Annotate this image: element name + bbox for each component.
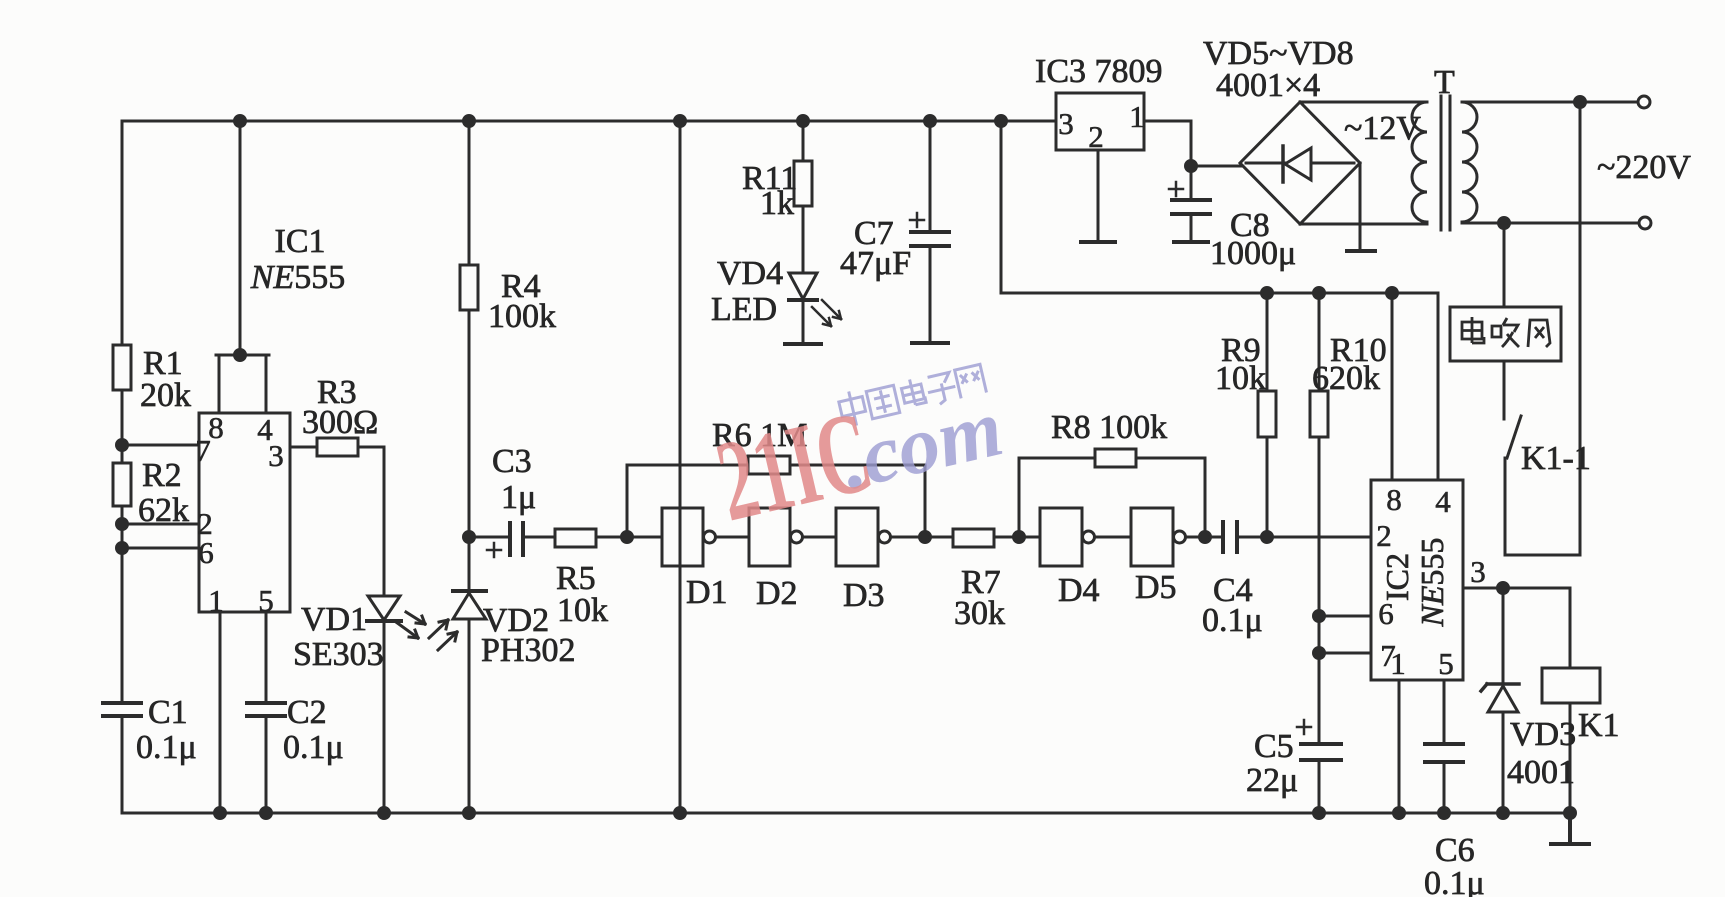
resistor R3 — [317, 438, 358, 456]
gate D2 — [749, 508, 803, 566]
wire IC1 pin5 down — [265, 612, 268, 813]
svg-text:R2: R2 — [142, 457, 182, 494]
node D1 branch bottom — [675, 808, 686, 819]
wire IC2 pin8 to rail — [1391, 293, 1394, 480]
wire IC2 pin5 down — [1443, 680, 1446, 744]
wire R6 feedback loop — [627, 465, 925, 537]
capacitor C2 — [244, 703, 288, 716]
svg-text:D1: D1 — [686, 574, 728, 611]
resistor R6 — [748, 456, 790, 474]
wire VD2 to ground rail — [468, 619, 471, 813]
svg-text:D4: D4 — [1058, 572, 1100, 609]
svg-text:0.1μ: 0.1μ — [1424, 865, 1485, 897]
hair dryer label 电吹风 glyphs — [1462, 317, 1550, 347]
node C5 ground — [1314, 808, 1325, 819]
node top rail at IC1 — [235, 116, 246, 127]
ground IC3 pin2 — [1081, 240, 1115, 244]
node C8 tap — [1186, 161, 1197, 172]
node pin6 tap — [117, 543, 128, 554]
wire IC2 pin4 to rail — [1437, 293, 1440, 480]
wire D5 to C4 — [1186, 536, 1223, 539]
svg-text:1000μ: 1000μ — [1210, 235, 1296, 272]
node R11 top — [798, 116, 809, 127]
svg-text:3: 3 — [1470, 554, 1486, 589]
diode VD3 4001 — [1481, 588, 1519, 712]
svg-text:300Ω: 300Ω — [302, 404, 378, 441]
wire IC2 pin3 output — [1463, 587, 1503, 590]
node IC1 bracket junction — [235, 350, 246, 361]
wire primary top to 220V terminal — [1462, 101, 1637, 104]
wire bridge right corner to ground — [1359, 163, 1362, 250]
node VD2 ground — [464, 808, 475, 819]
gate D3 — [836, 508, 891, 566]
resistor R2 — [113, 463, 131, 506]
wire D2 to D3 — [803, 536, 836, 539]
wire IC3 pin2 to ground — [1097, 150, 1100, 241]
svg-text:LED: LED — [711, 291, 777, 328]
svg-text:0.1μ: 0.1μ — [1202, 602, 1263, 639]
wire to hair dryer load — [1503, 223, 1506, 307]
svg-text:D3: D3 — [843, 577, 885, 614]
svg-text:7: 7 — [195, 433, 211, 468]
capacitor C7 — [908, 213, 952, 246]
transformer T primary winding — [1462, 102, 1477, 222]
svg-text:1: 1 — [208, 583, 224, 618]
wire C7 to ground — [929, 246, 932, 342]
svg-text:C5: C5 — [1254, 728, 1294, 765]
gate D5 — [1131, 508, 1186, 566]
svg-text:3: 3 — [268, 438, 284, 473]
node R6 return — [920, 532, 931, 543]
watermark 中国电子网 — [837, 361, 987, 428]
wire C5 to ground rail — [1318, 760, 1321, 813]
diode VD1 LED SE303 — [367, 596, 425, 638]
svg-text:~220V: ~220V — [1597, 149, 1691, 186]
svg-text:D5: D5 — [1135, 569, 1177, 606]
wire IC3 pin1 to bridge — [1144, 121, 1244, 166]
svg-text:6: 6 — [1378, 596, 1394, 631]
svg-text:NE555: NE555 — [250, 259, 345, 296]
resistor R1 — [113, 345, 131, 390]
wire C7 branch — [929, 121, 932, 231]
node pin6 tap — [1314, 611, 1325, 622]
node pin3 — [1498, 583, 1509, 594]
svg-text:2: 2 — [1376, 518, 1392, 553]
svg-text:PH302: PH302 — [481, 632, 575, 669]
wire R4 branch from top rail — [468, 121, 471, 537]
svg-text:4001: 4001 — [1507, 754, 1575, 791]
wire C6 to ground rail — [1443, 762, 1446, 813]
transformer T core — [1441, 96, 1450, 230]
wire pin6 — [122, 547, 199, 550]
svg-text:NE555: NE555 — [1414, 538, 1450, 628]
relay K1 coil — [1542, 668, 1600, 703]
gate D1 — [662, 508, 716, 566]
wire R11 branch — [802, 121, 805, 273]
node pin7 tap — [1314, 648, 1325, 659]
svg-text:620k: 620k — [1312, 360, 1380, 397]
capacitor C6 — [1422, 744, 1466, 762]
resistor R7 — [953, 529, 994, 547]
node C7 top — [925, 116, 936, 127]
wire R5 to D1 — [596, 536, 662, 539]
svg-text:4001×4: 4001×4 — [1216, 67, 1320, 104]
svg-text:6: 6 — [198, 535, 214, 570]
wire IC2 pin7 — [1319, 652, 1371, 655]
terminal 220V top — [1638, 96, 1650, 108]
svg-text:C1: C1 — [148, 694, 188, 731]
wire top supply rail — [122, 120, 1056, 123]
diode bridge VD5-VD8 — [1240, 102, 1360, 224]
svg-text:T: T — [1434, 64, 1455, 101]
wire C3 to R5 — [523, 536, 555, 539]
ground main rail — [1551, 813, 1589, 844]
ground VD4 — [785, 342, 821, 346]
node heater branch — [1499, 218, 1510, 229]
svg-text:20k: 20k — [140, 377, 191, 414]
svg-text:VD4: VD4 — [717, 255, 783, 292]
svg-text:IC3 7809: IC3 7809 — [1035, 53, 1163, 90]
svg-text:47μF: 47μF — [840, 245, 911, 282]
hair dryer load box — [1450, 307, 1561, 361]
ground C8 — [1174, 240, 1208, 244]
svg-text:1μ: 1μ — [501, 479, 536, 516]
wire vertical branch through D1 — [679, 121, 682, 813]
capacitor C8 — [1169, 166, 1213, 241]
wire D4 to D5 — [1095, 536, 1131, 539]
wire node to C3 — [469, 536, 510, 539]
node pin8 rail — [1387, 288, 1398, 299]
node R9 top — [1262, 288, 1273, 299]
svg-text:D2: D2 — [756, 575, 798, 612]
terminal 220V bottom — [1639, 217, 1651, 229]
node pin1 ground — [215, 808, 226, 819]
ground bridge — [1347, 249, 1375, 253]
wire relay to ground rail — [1569, 703, 1572, 813]
node D1 input — [622, 532, 633, 543]
svg-text:1: 1 — [1390, 646, 1406, 681]
wire D3 to R7 — [891, 536, 953, 539]
node pin1 ground — [1394, 808, 1405, 819]
node C6 ground — [1439, 808, 1450, 819]
resistor R11 — [794, 161, 812, 206]
node D1 branch top — [675, 116, 686, 127]
wire VD3 to ground rail — [1502, 712, 1505, 813]
wire K1-1 to 220V line — [1579, 102, 1582, 555]
wire IC1 pins 8-4 bracket to top rail — [216, 121, 269, 413]
wire IC1 pin1 to ground rail — [219, 612, 222, 813]
svg-text:C2: C2 — [287, 694, 327, 731]
node pin2 tap — [117, 519, 128, 530]
svg-text:1: 1 — [1129, 99, 1145, 134]
capacitor C5 — [1297, 720, 1342, 760]
capacitor C1 — [100, 703, 144, 716]
svg-text:SE303: SE303 — [293, 636, 384, 673]
wire pin3 to relay K1 — [1503, 588, 1570, 668]
svg-text:VD1: VD1 — [301, 601, 367, 638]
diode VD4 LED — [789, 273, 841, 326]
svg-text:C6: C6 — [1435, 832, 1475, 869]
wire pin2 — [122, 523, 199, 526]
gate D4 — [1040, 508, 1095, 566]
svg-text:22μ: 22μ — [1246, 762, 1298, 799]
ground C7 — [912, 341, 948, 345]
node R9 bottom — [1262, 532, 1273, 543]
svg-text:5: 5 — [258, 583, 274, 618]
svg-text:8: 8 — [1386, 482, 1402, 517]
svg-text:IC1: IC1 — [275, 223, 326, 260]
svg-text:10k: 10k — [1215, 360, 1266, 397]
capacitor C4 — [1223, 520, 1237, 556]
node pin7 tap — [117, 440, 128, 451]
svg-text:C3: C3 — [492, 443, 532, 480]
svg-text:4: 4 — [1435, 484, 1451, 519]
svg-text:30k: 30k — [954, 595, 1005, 632]
wire left vertical branch — [121, 121, 124, 813]
svg-text:IC2: IC2 — [1379, 553, 1415, 601]
op-amp U2 IC2 NE555 body — [1371, 480, 1463, 680]
wire C4 to IC2 pin2 — [1237, 536, 1371, 539]
wire primary bottom to 220V terminal — [1462, 222, 1638, 225]
svg-text:100k: 100k — [488, 298, 556, 335]
diode VD2 photodiode PH302 — [429, 537, 486, 650]
svg-text:0.1μ: 0.1μ — [283, 729, 344, 766]
wire VD4 to ground — [802, 300, 805, 343]
node R4 top — [464, 116, 475, 127]
op-amp U3 IC3 7809 body — [1056, 93, 1144, 150]
resistor R9 — [1258, 391, 1276, 437]
svg-text:2: 2 — [1088, 119, 1104, 154]
resistor R8 — [1095, 449, 1136, 467]
svg-text:5: 5 — [1438, 646, 1454, 681]
node VD1 ground — [379, 808, 390, 819]
wire second supply rail — [1001, 121, 1438, 293]
capacitor C3 — [487, 520, 523, 557]
wire VD1 to ground rail — [383, 622, 386, 813]
switch K1-1 — [1504, 361, 1580, 555]
node photodiode input — [464, 532, 475, 543]
svg-text:K1: K1 — [1578, 707, 1620, 744]
node R8 tap — [1014, 532, 1025, 543]
node R8 return — [1200, 532, 1211, 543]
svg-text:R8 100k: R8 100k — [1051, 409, 1167, 446]
node second rail top — [996, 116, 1007, 127]
node VD3 ground — [1498, 808, 1509, 819]
wire R8 feedback loop — [1019, 458, 1205, 537]
node R10 top — [1314, 288, 1325, 299]
wire D1 to D2 — [716, 536, 749, 539]
wire IC1 pin3 to R3 — [290, 446, 384, 449]
svg-text:~12V: ~12V — [1344, 110, 1421, 147]
wire bottom ground rail — [122, 812, 1570, 815]
resistor R4 — [460, 265, 478, 310]
svg-text:0.1μ: 0.1μ — [136, 729, 197, 766]
wire R7 to D4 — [994, 536, 1040, 539]
wire pin7 — [122, 444, 199, 447]
svg-text:62k: 62k — [138, 492, 189, 529]
wire R9 branch — [1266, 293, 1269, 537]
node relay ground — [1565, 808, 1576, 819]
resistor R5 — [555, 529, 596, 547]
node K1-1 branch top — [1575, 97, 1586, 108]
transformer T secondary winding — [1412, 102, 1427, 222]
svg-text:10k: 10k — [557, 592, 608, 629]
svg-text:VD3: VD3 — [1510, 716, 1576, 753]
resistor R10 — [1310, 391, 1328, 437]
op-amp U1 IC1 NE555 body — [199, 413, 290, 612]
wire bridge to transformer bottom — [1300, 223, 1427, 226]
wire IC2 pin6 — [1319, 615, 1371, 618]
wire bridge to transformer top — [1300, 101, 1427, 104]
svg-text:K1-1: K1-1 — [1521, 440, 1591, 477]
node pin5 ground — [261, 808, 272, 819]
wire R10 branch — [1318, 293, 1321, 744]
svg-text:3: 3 — [1058, 106, 1074, 141]
svg-text:1k: 1k — [760, 185, 794, 222]
wire R3 to VD1 — [383, 447, 386, 595]
wire IC2 pin1 to ground — [1398, 680, 1401, 813]
